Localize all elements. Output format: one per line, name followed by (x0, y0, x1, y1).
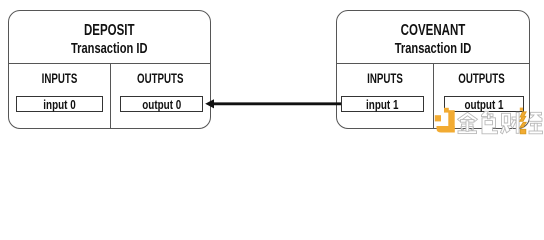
char jin (金) (458, 112, 478, 133)
label INPUTS (350, 71, 419, 86)
subtitle Transaction ID (361, 40, 503, 57)
header divider line (337, 11, 529, 64)
watermark jinse finance (433, 106, 544, 140)
column divider (110, 64, 111, 128)
char se (色) (482, 111, 498, 134)
slot output 0 (120, 96, 204, 112)
label OUTPUTS (125, 71, 196, 86)
logo orange blocks (435, 108, 455, 133)
arrowhead (205, 99, 214, 108)
subtitle Transaction ID (35, 40, 183, 57)
char jing (经) (520, 108, 543, 134)
slot input 1 (341, 96, 424, 112)
slot output 1 (444, 96, 524, 112)
box DEPOSIT transaction (8, 10, 211, 129)
box COVENANT transaction (336, 10, 530, 129)
title COVENANT (363, 22, 501, 40)
slot input 0 (16, 96, 103, 112)
arrow from covenant input 1 to deposit output 0 (0, 0, 544, 140)
char cai (财) (501, 112, 523, 134)
title DEPOSIT (37, 22, 181, 40)
wire arrow shaft (212, 102, 341, 105)
column divider (433, 64, 434, 128)
label OUTPUTS (447, 71, 515, 86)
label INPUTS (23, 71, 96, 86)
header divider line (9, 11, 210, 64)
